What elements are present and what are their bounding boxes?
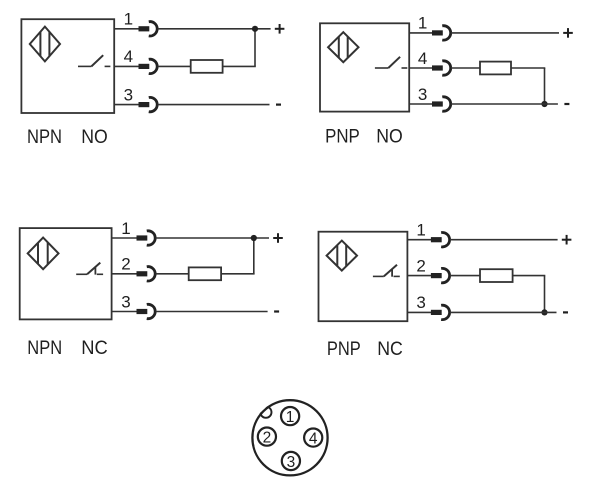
NC switch contact in NPN NC — [76, 263, 103, 275]
connector plug pin 1 (NPN NO) — [139, 26, 150, 31]
inductive sensor diamond symbol in PNP NO — [328, 32, 358, 62]
svg-text:3: 3 — [121, 292, 130, 311]
wire pin 1 stub from box (NPN NO) — [114, 28, 139, 30]
connector socket arc pin 3 (NPN NO) — [149, 97, 157, 111]
svg-text:NPN: NPN — [27, 127, 62, 148]
svg-text:NO: NO — [376, 126, 403, 147]
connector plug pin 3 (PNP NO) — [432, 101, 443, 106]
plus supply terminal (NPN NC) — [273, 233, 283, 243]
wire load resistor to junction (NPN NO) — [223, 65, 256, 67]
plus supply terminal (PNP NO) — [563, 28, 573, 38]
junction dot (NPN NO) — [252, 26, 258, 32]
connector keying notch — [260, 407, 271, 418]
svg-text:4: 4 — [124, 47, 133, 66]
junction dot (NPN NC) — [251, 235, 257, 241]
connector socket arc pin 3 (PNP NC) — [441, 305, 449, 319]
load resistor (NPN NO) — [191, 60, 223, 73]
svg-text:1: 1 — [286, 409, 295, 426]
wire pin 1 stub from box (PNP NO) — [409, 32, 433, 34]
inductive sensor diamond symbol in NPN NC — [28, 238, 59, 270]
svg-text:NO: NO — [81, 127, 108, 148]
connector socket arc pin 1 (PNP NC) — [441, 233, 449, 247]
sensor box NPN NC — [20, 228, 112, 319]
connector plug pin 1 (PNP NO) — [432, 30, 443, 35]
svg-text:1: 1 — [124, 10, 133, 29]
connector plug pin 4 (NPN NO) — [139, 64, 150, 69]
NC switch contact in PNP NC — [373, 265, 400, 277]
svg-text:PNP: PNP — [325, 126, 360, 147]
connector pin 2 circle — [258, 428, 276, 446]
inductive sensor diamond symbol in PNP NC — [327, 241, 357, 271]
sensor box PNP NC — [319, 232, 408, 322]
wire pin 3 stub from box (PNP NC) — [407, 311, 432, 313]
connector socket arc pin 2 (PNP NC) — [441, 268, 449, 282]
svg-text:2: 2 — [121, 255, 130, 274]
connector socket arc pin 3 (NPN NC) — [147, 304, 155, 318]
wire pin 3 to minus terminal (PNP NO) — [451, 103, 558, 105]
svg-text:3: 3 — [416, 293, 425, 312]
svg-text:3: 3 — [418, 85, 427, 104]
load resistor (PNP NC) — [480, 269, 513, 282]
svg-text:NC: NC — [81, 338, 108, 359]
wire pin 4 stub from box (PNP NO) — [409, 67, 433, 69]
wire pin 4 to load resistor (NPN NO) — [158, 65, 191, 67]
connector plug pin 3 (PNP NC) — [431, 310, 442, 315]
wire load resistor to junction (NPN NC) — [221, 273, 255, 275]
connector plug pin 3 (NPN NC) — [137, 309, 148, 314]
wire pin 2 stub from box (NPN NC) — [112, 273, 138, 275]
load resistor (PNP NO) — [480, 62, 511, 75]
wire vertical junction branch (PNP NO) — [544, 68, 546, 104]
wire pin 2 to load resistor (NPN NC) — [156, 273, 189, 275]
minus supply terminal (NPN NC) — [274, 310, 279, 312]
connector plug pin 4 (PNP NO) — [432, 65, 443, 70]
plus supply terminal (NPN NO) — [275, 24, 285, 34]
wire pin 3 stub from box (NPN NO) — [114, 104, 139, 106]
svg-text:3: 3 — [287, 454, 296, 471]
wire pin 1 stub from box (NPN NC) — [112, 237, 138, 239]
wire pin 1 to plus terminal (PNP NO) — [451, 32, 559, 34]
connector plug pin 1 (PNP NC) — [431, 237, 442, 242]
wire load resistor to junction (PNP NO) — [511, 67, 545, 69]
wire pin 3 stub from box (NPN NC) — [112, 311, 138, 313]
svg-text:PNP: PNP — [327, 339, 361, 360]
minus supply terminal (PNP NC) — [563, 311, 568, 313]
wire vertical junction branch (NPN NC) — [253, 238, 255, 274]
wire pin 3 stub from box (PNP NO) — [409, 103, 433, 105]
svg-text:2: 2 — [416, 256, 425, 275]
svg-text:NC: NC — [377, 339, 403, 360]
svg-text:1: 1 — [121, 219, 130, 238]
connector plug pin 1 (NPN NC) — [137, 235, 148, 240]
connector socket arc pin 3 (PNP NO) — [442, 97, 450, 111]
junction dot (PNP NC) — [541, 309, 547, 315]
wire vertical junction branch (NPN NO) — [254, 29, 256, 67]
svg-text:1: 1 — [418, 14, 427, 33]
wire pin 3 to minus terminal (NPN NO) — [158, 104, 270, 106]
connector pin 4 circle — [304, 429, 322, 447]
connector socket arc pin 2 (NPN NC) — [147, 267, 155, 281]
wire pin 4 to load resistor (PNP NO) — [451, 67, 480, 69]
connector socket arc pin 1 (NPN NC) — [147, 231, 155, 245]
svg-text:2: 2 — [263, 429, 272, 446]
connector plug pin 2 (NPN NC) — [137, 271, 148, 276]
connector pin 3 circle — [282, 452, 300, 470]
wire pin 1 stub from box (PNP NC) — [407, 239, 432, 241]
wire pin 2 stub from box (PNP NC) — [407, 275, 432, 277]
wire pin 1 to plus terminal (NPN NC) — [156, 237, 269, 239]
wire pin 1 to plus terminal (NPN NO) — [158, 28, 271, 30]
connector plug pin 2 (PNP NC) — [431, 273, 442, 278]
minus supply terminal (NPN NO) — [276, 103, 281, 105]
wire load resistor to junction (PNP NC) — [513, 275, 546, 277]
svg-text:1: 1 — [416, 221, 425, 240]
connector socket arc pin 1 (PNP NO) — [442, 26, 450, 40]
svg-text:NPN: NPN — [27, 338, 62, 359]
wire pin 2 to load resistor (PNP NC) — [450, 275, 480, 277]
svg-text:4: 4 — [418, 49, 427, 68]
wire pin 4 stub from box (NPN NO) — [114, 65, 139, 67]
load resistor (NPN NC) — [189, 267, 221, 280]
wire pin 3 to minus terminal (PNP NC) — [450, 311, 557, 313]
wire pin 1 to plus terminal (PNP NC) — [450, 239, 558, 241]
sensor box PNP NO — [320, 23, 409, 111]
connector plug pin 3 (NPN NO) — [139, 102, 150, 107]
minus supply terminal (PNP NO) — [564, 103, 569, 105]
wire vertical junction branch (PNP NC) — [544, 276, 546, 313]
wire pin 3 to minus terminal (NPN NC) — [156, 311, 268, 313]
connector socket arc pin 4 (PNP NO) — [442, 61, 450, 75]
NO switch contact in NPN NO — [78, 55, 110, 66]
connector pin 1 circle — [281, 407, 299, 425]
connector socket arc pin 4 (NPN NO) — [149, 59, 157, 73]
junction dot (PNP NO) — [541, 101, 547, 107]
NO switch contact in PNP NO — [375, 57, 407, 68]
connector socket arc pin 1 (NPN NO) — [149, 22, 157, 36]
svg-text:4: 4 — [309, 430, 318, 447]
inductive sensor diamond symbol in NPN NO — [30, 27, 60, 62]
svg-text:3: 3 — [124, 85, 133, 104]
plus supply terminal (PNP NC) — [562, 235, 572, 245]
sensor box NPN NO — [21, 19, 114, 113]
